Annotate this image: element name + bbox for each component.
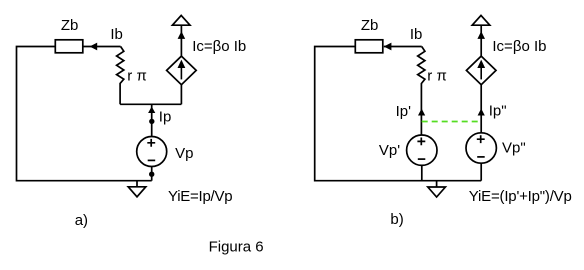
wire: left loop of circuit a (17, 47, 152, 181)
svg-text:YiE=Ip/Vp: YiE=Ip/Vp (168, 188, 232, 205)
svg-text:Vp: Vp (175, 145, 193, 162)
svg-text:Zb: Zb (61, 17, 79, 34)
svg-text:Vp": Vp" (502, 139, 526, 156)
plus sign of Vp'' (b) (477, 135, 485, 143)
svg-text:a): a) (75, 212, 88, 229)
svg-text:b): b) (390, 211, 403, 228)
svg-text:Ip": Ip" (489, 102, 507, 119)
svg-text:Ip': Ip' (396, 103, 412, 120)
svg-text:Ic=βo Ib: Ic=βo Ib (192, 38, 246, 55)
arrow inside diamond (b) (480, 66, 482, 80)
arrow inside diamond (a) (180, 66, 182, 80)
ground (b) (428, 181, 446, 197)
svg-text:r π: r π (427, 68, 447, 85)
wire: diamond top to output terminal (b) (480, 25, 482, 56)
wire: resistor right to r-pi top (83, 46, 121, 48)
wire: left loop of circuit b (315, 47, 482, 181)
minus sign of Vp'' (b) (477, 156, 485, 158)
arrow on collector wire (a) (178, 31, 186, 39)
resistor r pi (b) zigzag (418, 47, 425, 136)
current arrow Ib (a) (90, 43, 98, 51)
junction dot below Vp (a) (149, 172, 154, 177)
wire: diamond bottom stub (a) (180, 85, 182, 105)
svg-text:Ic=βo Ib: Ic=βo Ib (492, 38, 546, 55)
plus sign of Vp' (b) (417, 138, 425, 146)
output terminal triangle (b) (472, 15, 490, 25)
minus sign of Vp' (b) (418, 158, 426, 160)
current arrow Ib (b) (384, 43, 392, 51)
dependent source diamond U2 (b) (466, 56, 496, 85)
virtual short dashed link (b) (422, 121, 481, 123)
svg-text:Figura 6: Figura 6 (209, 239, 264, 256)
current arrow Ip (a) (148, 107, 155, 114)
svg-text:Ip: Ip (159, 108, 172, 125)
wire: diamond top to output terminal (a) (180, 25, 182, 56)
svg-text:Ib: Ib (110, 26, 123, 43)
output terminal triangle (a) (172, 15, 190, 25)
wire: diamond bottom to Vp'' (b) (480, 85, 482, 133)
arrow on collector wire (b) (477, 31, 485, 39)
dependent source diamond U1 (a) (167, 56, 197, 85)
svg-text:Vp': Vp' (379, 142, 400, 159)
wire: resistor right to r-pi top (b) (384, 46, 422, 48)
wire: bottom node of r-pi to diamond (a) (120, 103, 181, 105)
minus sign of Vp (a) (148, 159, 156, 161)
voltage source Vp' (b) (407, 135, 437, 165)
svg-text:YiE=(Ip'+Ip")/Vp: YiE=(Ip'+Ip")/Vp (469, 188, 572, 205)
svg-text:Zb: Zb (361, 17, 379, 34)
ground (a) (128, 181, 146, 197)
svg-text:r π: r π (127, 68, 147, 85)
plus sign of Vp (a) (147, 139, 155, 147)
wire: Vp' bottom stub (b) (421, 166, 423, 181)
wire: Ip branch down to Vp (a) (151, 104, 153, 136)
wire: Vp bottom to ground rail (a) (151, 167, 153, 181)
resistor r pi (a) zigzag (117, 47, 124, 105)
svg-text:Ib: Ib (410, 26, 423, 43)
current arrow Ip'' (b) (478, 109, 485, 116)
resistor Zb (b) (355, 40, 383, 53)
voltage source Vp (a) (137, 137, 167, 167)
wire: Vp'' bottom stub (b) (480, 163, 482, 180)
resistor Zb (a) (55, 40, 83, 53)
voltage source Vp'' (b) (466, 133, 496, 163)
junction dot above Vp (a) (149, 119, 154, 124)
current arrow Ip' (b) (418, 109, 425, 116)
